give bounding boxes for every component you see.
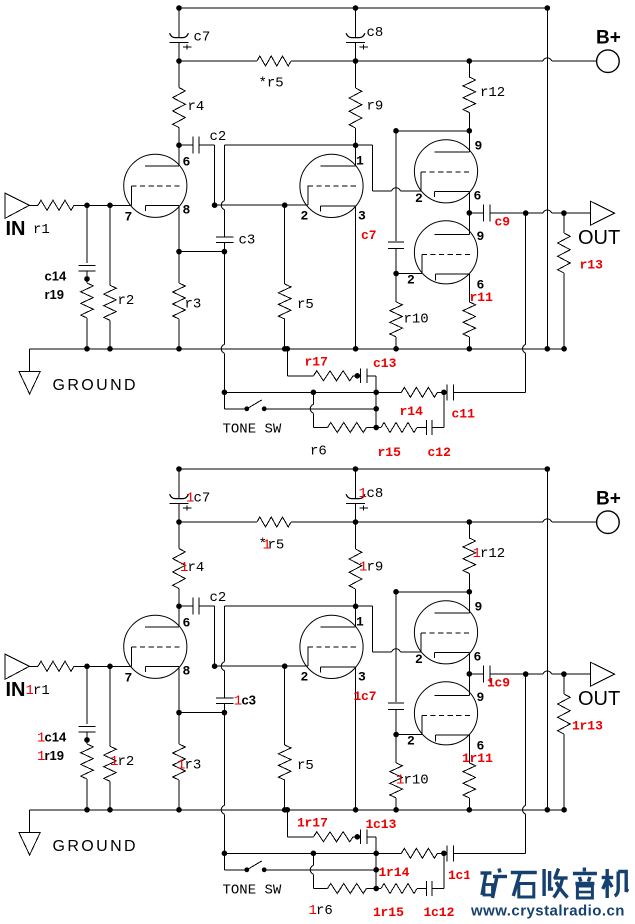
svg-text:r6: r6: [316, 903, 333, 919]
svg-text:r1: r1: [33, 683, 50, 699]
svg-text:8: 8: [183, 664, 191, 679]
svg-text:2: 2: [407, 734, 415, 749]
svg-text:OUT: OUT: [578, 688, 620, 710]
svg-text:1: 1: [424, 905, 432, 920]
svg-text:1: 1: [263, 538, 271, 554]
svg-text:r4: r4: [188, 560, 205, 576]
svg-text:*r5: *r5: [259, 76, 284, 92]
svg-text:1: 1: [572, 719, 580, 734]
svg-text:c9: c9: [495, 675, 511, 690]
svg-text:1: 1: [396, 773, 404, 789]
svg-text:1: 1: [379, 865, 387, 880]
svg-text:c8: c8: [367, 486, 384, 502]
svg-text:1: 1: [37, 731, 45, 747]
svg-text:1: 1: [37, 749, 45, 765]
svg-text:9: 9: [477, 229, 485, 244]
svg-text:3: 3: [358, 209, 366, 224]
svg-text:1: 1: [186, 491, 194, 507]
svg-text:r12: r12: [480, 546, 505, 562]
svg-text:3: 3: [358, 670, 366, 685]
svg-text:6: 6: [183, 155, 191, 170]
svg-text:1: 1: [234, 694, 242, 710]
svg-text:6: 6: [183, 616, 191, 631]
svg-text:TONE SW: TONE SW: [223, 883, 282, 899]
svg-text:1: 1: [110, 754, 118, 770]
svg-text:r2: r2: [118, 293, 135, 309]
svg-text:c3: c3: [239, 233, 256, 249]
svg-text:c7: c7: [194, 491, 211, 507]
svg-text:r1: r1: [33, 222, 50, 238]
svg-text:c7: c7: [361, 228, 377, 243]
svg-text:r13: r13: [580, 719, 604, 734]
svg-text:6: 6: [477, 739, 485, 754]
svg-text:B+: B+: [596, 28, 621, 49]
svg-text:1: 1: [356, 154, 364, 169]
svg-text:TONE SW: TONE SW: [223, 422, 282, 438]
svg-text:r17: r17: [305, 355, 328, 370]
svg-text:1: 1: [448, 868, 456, 883]
svg-text:1: 1: [366, 817, 374, 832]
svg-text:r5: r5: [297, 758, 314, 774]
svg-text:c12: c12: [431, 905, 455, 920]
svg-text:1: 1: [180, 560, 188, 576]
svg-text:9: 9: [477, 690, 485, 705]
svg-text:r3: r3: [185, 758, 202, 774]
svg-text:B+: B+: [596, 489, 621, 510]
svg-text:2: 2: [415, 191, 423, 206]
svg-text:1: 1: [373, 905, 381, 920]
svg-text:IN: IN: [6, 218, 26, 240]
svg-text:r17: r17: [305, 816, 328, 831]
svg-text:1: 1: [354, 689, 362, 704]
svg-text:r5: r5: [297, 297, 314, 313]
svg-text:OUT: OUT: [578, 227, 620, 249]
svg-text:r2: r2: [118, 754, 135, 770]
svg-text:r6: r6: [310, 444, 327, 460]
svg-text:1: 1: [309, 903, 317, 919]
svg-text:r9: r9: [367, 560, 384, 576]
svg-text:c8: c8: [367, 25, 384, 41]
svg-text:9: 9: [475, 139, 483, 154]
svg-text:2: 2: [407, 273, 415, 288]
svg-text:1: 1: [177, 758, 185, 774]
svg-text:1: 1: [26, 683, 34, 699]
svg-text:2: 2: [301, 209, 309, 224]
svg-text:GROUND: GROUND: [53, 838, 139, 855]
svg-text:1: 1: [297, 816, 305, 831]
svg-text:c13: c13: [373, 817, 397, 832]
svg-text:2: 2: [301, 670, 309, 685]
svg-text:c13: c13: [373, 356, 397, 371]
svg-text:r3: r3: [185, 297, 202, 313]
svg-text:c7: c7: [361, 689, 377, 704]
svg-text:6: 6: [477, 278, 485, 293]
svg-text:1: 1: [487, 675, 495, 690]
svg-text:9: 9: [475, 600, 483, 615]
svg-text:c2: c2: [210, 590, 227, 606]
svg-text:r15: r15: [381, 905, 405, 920]
svg-text:r14: r14: [400, 404, 424, 419]
svg-text:1: 1: [356, 615, 364, 630]
svg-text:r12: r12: [480, 85, 505, 101]
svg-text:r13: r13: [580, 258, 604, 273]
svg-text:r19: r19: [45, 748, 65, 763]
svg-text:GROUND: GROUND: [53, 377, 139, 394]
svg-text:r10: r10: [404, 312, 429, 328]
svg-text:r15: r15: [378, 445, 402, 460]
svg-text:r9: r9: [367, 99, 384, 115]
svg-text:r10: r10: [404, 773, 429, 789]
svg-text:r19: r19: [45, 287, 65, 302]
svg-text:r14: r14: [386, 865, 410, 880]
svg-text:www.crystalradio.cn: www.crystalradio.cn: [470, 903, 625, 920]
svg-text:c12: c12: [428, 445, 452, 460]
svg-text:c9: c9: [495, 214, 511, 229]
svg-text:7: 7: [125, 671, 133, 686]
svg-text:c7: c7: [194, 30, 211, 46]
svg-text:2: 2: [415, 652, 423, 667]
svg-text:1: 1: [359, 486, 367, 502]
svg-text:IN: IN: [6, 679, 26, 701]
svg-text:c2: c2: [210, 129, 227, 145]
svg-text:1: 1: [473, 546, 481, 562]
svg-text:1: 1: [359, 560, 367, 576]
svg-text:c3: c3: [242, 693, 256, 708]
svg-text:r4: r4: [188, 99, 205, 115]
svg-text:c14: c14: [45, 730, 67, 745]
svg-text:7: 7: [125, 210, 133, 225]
svg-text:6: 6: [474, 650, 482, 665]
svg-text:8: 8: [183, 203, 191, 218]
svg-text:c14: c14: [45, 269, 67, 284]
svg-text:6: 6: [474, 189, 482, 204]
svg-text:c11: c11: [452, 407, 476, 422]
svg-text:1: 1: [462, 751, 470, 766]
